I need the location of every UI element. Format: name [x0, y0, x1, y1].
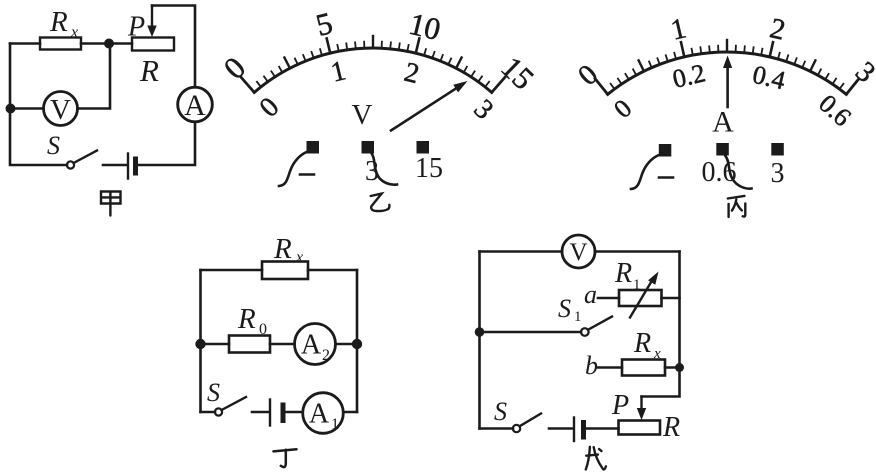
label A (bing) — [712, 106, 734, 139]
label minus (bing) — [659, 176, 673, 179]
svg-text:3: 3 — [771, 158, 785, 189]
label S (wu) — [494, 397, 507, 426]
terminal square 15 (yi) — [417, 141, 430, 154]
wire: jia top right down to ammeter — [152, 6, 195, 88]
scale label 2 (yi) — [401, 57, 422, 90]
svg-text:R: R — [237, 303, 256, 335]
label 15 terminal (yi) — [415, 153, 443, 184]
switch S (jia) — [67, 151, 97, 169]
label R1 (wu) — [614, 258, 641, 293]
label Rx (wu) — [633, 328, 661, 362]
terminal square 3 (bing) — [771, 143, 784, 156]
svg-text:S: S — [207, 378, 220, 407]
voltmeter V (jia) — [44, 92, 78, 127]
svg-text:A: A — [309, 399, 330, 430]
meter scale arc (yi voltmeter) — [254, 48, 491, 92]
scale label 0 outer (bing) — [572, 59, 604, 92]
rheostat R1 (wu) — [619, 290, 662, 306]
wire: ding bottom left — [201, 411, 216, 414]
wire: wu top left — [480, 250, 563, 253]
terminal square 0.6 (bing) — [716, 143, 729, 156]
switch S (ding) — [215, 397, 246, 416]
svg-text:A: A — [184, 89, 206, 122]
wire: R1 to right side (wu) — [662, 297, 680, 300]
slider arrow P (jia) — [147, 6, 156, 38]
label Rx (jia) — [49, 6, 78, 41]
wire: switch to battery (wu) — [549, 427, 573, 430]
svg-text:b: b — [585, 351, 598, 380]
wire: battery to switch contact (jia) — [103, 164, 127, 167]
resistor Rx (jia) — [40, 38, 81, 50]
label P (wu) — [611, 390, 629, 421]
svg-text:1: 1 — [574, 309, 582, 325]
tick marks (yi) — [241, 36, 505, 92]
label 3 terminal (yi) — [365, 156, 379, 187]
svg-text:R: R — [139, 53, 159, 88]
label R (jia rheostat) — [139, 53, 159, 88]
switch S1 (wu) — [581, 317, 612, 336]
label S (jia) — [47, 131, 60, 160]
svg-text:S: S — [494, 397, 507, 426]
node: junction dot (jia left) — [6, 104, 16, 114]
resistor R0 (ding) — [229, 336, 270, 353]
terminal lead squiggle 0.6 (bing) — [726, 156, 752, 189]
wire: left dot to R0 (ding) — [201, 343, 230, 346]
node: right junction dot (wu) — [675, 363, 684, 372]
label 3 terminal (bing) — [771, 158, 785, 189]
wire: ammeter down to battery (jia) — [136, 122, 195, 165]
svg-text:V: V — [50, 94, 71, 126]
label 0.6 terminal (bing) — [702, 157, 737, 188]
wire: battery to A1 (ding) — [283, 411, 302, 414]
wire: ding right side — [356, 270, 359, 412]
scale label 10 (yi) — [406, 6, 444, 47]
svg-text:2: 2 — [322, 347, 330, 364]
wire: dot to switch S1 (wu) — [480, 331, 582, 334]
needle (yi) — [391, 81, 468, 131]
wire: ding left side — [199, 270, 202, 412]
ammeter A (jia) — [178, 87, 213, 122]
svg-text:0: 0 — [259, 321, 267, 338]
wire: R0 to ammeter A2 (ding) — [270, 343, 295, 346]
wire: wu left side — [478, 252, 481, 429]
wire: A1 to right side (ding) — [344, 411, 358, 414]
svg-text:V: V — [352, 99, 373, 131]
arrow through R1 (wu) — [630, 272, 659, 318]
wire: V to right side (wu) — [595, 250, 680, 253]
svg-text:x: x — [653, 346, 661, 362]
scale label 0.4 (bing) — [750, 60, 788, 96]
battery (jia) — [128, 154, 136, 179]
node a label (wu) — [584, 280, 597, 309]
scale label 1 (yi) — [328, 55, 349, 88]
scale label 5 (yi) — [312, 5, 335, 43]
wire: wu right side down to slider — [642, 252, 680, 397]
resistor Rx (wu) — [622, 360, 665, 376]
svg-text:P: P — [611, 390, 629, 421]
svg-text:R: R — [273, 233, 292, 265]
tick marks (bing) — [595, 40, 859, 94]
rheostat R (jia) — [132, 38, 174, 51]
label R0 (ding) — [237, 303, 267, 338]
label S (ding) — [207, 378, 220, 407]
terminal square minus (yi) — [307, 141, 320, 154]
meter scale arc (bing ammeter) — [608, 52, 847, 94]
scale label 1 (bing) — [668, 12, 689, 46]
label jia (Chinese) — [101, 192, 121, 216]
label R (wu) — [662, 412, 680, 443]
label Rx (ding) — [273, 233, 303, 266]
wire: Rx to right dot (wu) — [665, 366, 680, 369]
node: left junction dot (wu) — [475, 327, 485, 337]
svg-text:a: a — [584, 280, 597, 309]
wire: a to R1 (wu) — [598, 297, 619, 300]
svg-text:R: R — [633, 328, 651, 359]
scale label 0 outer (yi) — [217, 50, 252, 86]
label S1 (wu) — [558, 294, 582, 325]
wire: Rx to right side (ding) — [308, 269, 357, 272]
node: left junction dot (ding) — [195, 339, 205, 349]
node: junction dot (jia top) — [104, 39, 114, 49]
scale label 0.2 (bing) — [670, 58, 708, 94]
wire: b to Rx (wu) — [598, 366, 622, 369]
label V (yi) — [352, 99, 373, 131]
wire: jia top-left horizontal — [10, 42, 40, 45]
node b label (wu) — [585, 351, 598, 380]
label P (jia slider) — [127, 12, 145, 43]
svg-text:x: x — [70, 24, 78, 41]
svg-text:P: P — [127, 12, 145, 43]
voltmeter V (wu) — [562, 235, 595, 268]
wire: wu bottom left to switch — [480, 427, 514, 430]
scale label 2 (bing) — [767, 12, 788, 46]
wire: voltmeter to top junction — [78, 44, 111, 109]
wire: jia left side — [10, 44, 67, 166]
wire: left dot to voltmeter — [10, 107, 44, 110]
scale label 15 (yi) — [494, 50, 541, 97]
scale label 3 inner (yi) — [468, 94, 500, 126]
svg-text:R: R — [614, 258, 632, 289]
scale label 0.6 inner (bing) — [813, 89, 857, 132]
terminal lead squiggle minus (yi) — [279, 152, 307, 186]
rheostat R (wu) — [619, 421, 661, 435]
node: right junction dot (ding) — [352, 339, 362, 349]
terminal square 3 (yi) — [362, 141, 375, 154]
wire: Rx to rheostat — [81, 42, 132, 45]
label wu (Chinese) — [586, 447, 606, 470]
svg-text:R: R — [662, 412, 680, 443]
needle (bing) — [723, 56, 732, 108]
wire: battery to rheostat R (wu) — [584, 427, 619, 430]
battery (wu) — [574, 418, 584, 442]
scale label 3 outer (bing) — [849, 56, 876, 89]
svg-text:x: x — [295, 249, 303, 266]
ammeter A2 (ding) — [295, 324, 336, 365]
svg-text:A: A — [301, 330, 322, 361]
wire: switch to battery (ding) — [252, 411, 269, 414]
svg-text:S: S — [558, 294, 571, 323]
battery (ding) — [270, 400, 283, 426]
label minus (yi) — [300, 173, 314, 176]
svg-text:1: 1 — [633, 277, 641, 293]
label ding (Chinese) — [274, 449, 297, 467]
svg-text:R: R — [49, 6, 68, 38]
terminal square minus (bing) — [659, 144, 672, 157]
ammeter A1 (ding) — [303, 393, 344, 434]
resistor Rx (ding) — [262, 262, 308, 280]
terminal lead squiggle 3 (yi) — [371, 153, 397, 185]
scale label 0 inner (bing) — [608, 94, 637, 124]
wire: ding top branch — [201, 269, 263, 272]
svg-text:A: A — [712, 106, 734, 139]
terminal lead squiggle minus (bing) — [631, 155, 659, 189]
svg-text:S: S — [47, 131, 60, 160]
wire: A2 to right dot (ding) — [336, 343, 358, 346]
svg-text:V: V — [569, 239, 587, 266]
svg-text:1: 1 — [331, 416, 339, 433]
slider arrow P (wu) — [637, 397, 646, 421]
switch S (wu) — [513, 414, 541, 433]
svg-text:15: 15 — [415, 153, 443, 184]
label yi (Chinese) — [371, 194, 390, 211]
label bing (Chinese) — [728, 196, 746, 217]
scale label 0 inner (yi) — [254, 92, 286, 124]
